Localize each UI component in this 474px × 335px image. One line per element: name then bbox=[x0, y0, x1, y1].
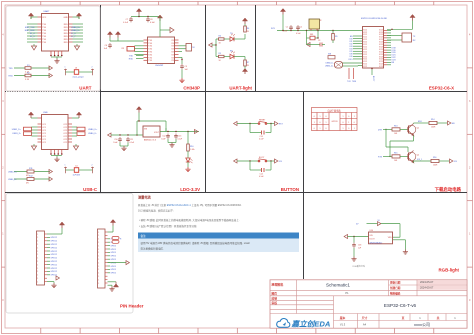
power flag VBUS J1 right bbox=[76, 112, 81, 118]
svg-text:ESP32-C6-WROOM-1U-N8: ESP32-C6-WROOM-1U-N8 bbox=[361, 18, 387, 20]
svg-text:1: 1 bbox=[98, 266, 99, 268]
svg-text:R14: R14 bbox=[431, 119, 434, 121]
ground J3 bottom bbox=[108, 284, 113, 286]
svg-text:1: 1 bbox=[354, 116, 355, 118]
svg-text:CC2: CC2 bbox=[63, 142, 67, 144]
svg-text:1-10k: 1-10k bbox=[190, 149, 195, 151]
svg-text:ESP32-C6-T-v6: ESP32-C6-T-v6 bbox=[384, 303, 417, 308]
svg-text:TXD: TXD bbox=[42, 30, 46, 32]
svg-text:USB0_D+: USB0_D+ bbox=[88, 129, 98, 131]
svg-text:BOOT: BOOT bbox=[372, 76, 374, 82]
wire Q1 collector up bbox=[413, 122, 415, 125]
wire RTS bbox=[383, 155, 392, 157]
svg-text:J6: J6 bbox=[75, 68, 77, 70]
resistor R13 bbox=[392, 128, 400, 131]
svg-text:U10: U10 bbox=[370, 230, 373, 232]
svg-text:1: 1 bbox=[37, 278, 38, 280]
svg-text:C7: C7 bbox=[126, 19, 128, 21]
svg-text:0: 0 bbox=[348, 128, 349, 130]
svg-text:备注: 备注 bbox=[141, 234, 147, 238]
arrow flag 3V3 out bbox=[195, 130, 198, 134]
svg-text:1: 1 bbox=[98, 273, 99, 275]
power flag left pair bbox=[107, 32, 112, 38]
JLCEDA logo cloud bbox=[277, 318, 290, 327]
svg-text:LDO-3.3V: LDO-3.3V bbox=[180, 187, 200, 192]
svg-text:V3: V3 bbox=[171, 49, 173, 51]
svg-text:• 安装 J5 跳帽 (出厂默认位置) : 开发板恢复正常: • 安装 J5 跳帽 (出厂默认位置) : 开发板恢复正常功能. bbox=[139, 224, 198, 228]
LED D2 RX bbox=[224, 56, 230, 58]
svg-text:2: 2 bbox=[92, 67, 93, 69]
PIN Header module box (light) bbox=[6, 194, 133, 314]
arrow flag D- bbox=[49, 177, 52, 181]
svg-text:TXD: TXD bbox=[148, 57, 152, 59]
svg-text:R4: R4 bbox=[219, 36, 221, 38]
svg-text:RGB-light: RGB-light bbox=[439, 268, 460, 273]
svg-text:IO12: IO12 bbox=[363, 66, 367, 68]
svg-text:R13: R13 bbox=[394, 126, 397, 128]
svg-text:USB-C: USB-C bbox=[83, 187, 98, 192]
resistor R14 bbox=[429, 121, 437, 124]
power flag J2 top bbox=[59, 222, 64, 228]
resistor R1 bbox=[25, 67, 31, 70]
svg-text:TXD: TXD bbox=[9, 68, 14, 70]
svg-text:1: 1 bbox=[98, 276, 99, 278]
power flag 3V3 (U1 top-left) bbox=[28, 13, 33, 19]
svg-text:VCC: VCC bbox=[42, 17, 47, 19]
svg-text:GPIO12: GPIO12 bbox=[51, 254, 58, 256]
svg-text:ESP_RXD: ESP_RXD bbox=[25, 30, 35, 32]
svg-text:GND: GND bbox=[63, 17, 68, 19]
wire loop below button bbox=[249, 124, 251, 133]
svg-text:0: 0 bbox=[326, 128, 327, 130]
svg-text:1: 1 bbox=[37, 258, 38, 260]
wire Q2 emitter right bbox=[413, 161, 415, 163]
svg-text:CH343P: CH343P bbox=[183, 86, 200, 91]
ground CH343P bbox=[179, 78, 184, 83]
net TXD wire row bbox=[14, 67, 50, 69]
svg-text:USB0_D-: USB0_D- bbox=[71, 30, 80, 32]
svg-text:2024-05-07: 2024-05-07 bbox=[420, 280, 434, 284]
section divider vertical x=205 bbox=[205, 5, 207, 193]
resistor R2 bbox=[25, 74, 31, 77]
svg-text:TXD: TXD bbox=[148, 49, 152, 51]
resistor R4 bbox=[219, 38, 225, 40]
resistor R10 vertical bbox=[187, 132, 189, 145]
wire to IO9 arrow bbox=[439, 160, 450, 162]
wire to ground bbox=[181, 69, 183, 78]
wires J1 right rows bbox=[72, 127, 77, 136]
svg-text:1: 1 bbox=[98, 249, 99, 251]
svg-text:UART-light: UART-light bbox=[229, 86, 252, 91]
resistor R11 bbox=[27, 170, 34, 173]
svg-text:100R: 100R bbox=[431, 127, 436, 129]
svg-text:2: 2 bbox=[92, 165, 93, 167]
svg-text:测量电流: 测量电流 bbox=[138, 195, 152, 200]
button S1 RESET circuit bbox=[234, 122, 237, 126]
pins J1 right bbox=[63, 118, 72, 144]
svg-text:WS2812B-Mini: WS2812B-Mini bbox=[370, 242, 383, 244]
ground U7 right bbox=[403, 250, 408, 255]
svg-text:1: 1 bbox=[37, 237, 38, 239]
svg-text:1: 1 bbox=[37, 251, 38, 253]
svg-text:CC2: CC2 bbox=[63, 139, 67, 141]
arrow flag ESP_RXD bbox=[49, 74, 52, 78]
svg-text:RXD: RXD bbox=[64, 24, 69, 26]
resistor R16 bbox=[431, 159, 439, 162]
svg-text:0: 0 bbox=[320, 122, 321, 124]
capacitor C2 bbox=[296, 25, 300, 30]
svg-text:R6: R6 bbox=[247, 28, 249, 30]
wire LED2 to R7 bbox=[234, 56, 245, 58]
capacitor C14 bbox=[262, 131, 265, 135]
svg-text:绘制: 绘制 bbox=[271, 296, 278, 300]
svg-text:GPIO5: GPIO5 bbox=[111, 256, 117, 258]
svg-text:1: 1 bbox=[326, 122, 327, 124]
svg-text:0: 0 bbox=[314, 116, 315, 118]
svg-text:R7: R7 bbox=[247, 62, 249, 64]
svg-text:1: 1 bbox=[314, 122, 315, 124]
svg-text:0: 0 bbox=[314, 128, 315, 130]
ground J1 bottom bbox=[51, 155, 62, 157]
wire to Q1 base bbox=[400, 128, 409, 130]
svg-text:IO9_1: IO9_1 bbox=[417, 159, 422, 161]
ground flag top-right bbox=[168, 29, 170, 31]
svg-text:1: 1 bbox=[98, 259, 99, 261]
svg-text:需注意模组针脚电压.: 需注意模组针脚电压. bbox=[141, 247, 165, 251]
svg-text:GPIO5: GPIO5 bbox=[111, 259, 117, 261]
power flag 3V3 ESP32 bbox=[280, 9, 285, 15]
svg-text:CC2: CC2 bbox=[63, 130, 67, 132]
svg-text:TXD: TXD bbox=[148, 60, 152, 62]
net labels U1 right bbox=[71, 27, 81, 38]
connector J3 right header bbox=[98, 229, 106, 288]
svg-text:1: 1 bbox=[65, 67, 66, 69]
svg-text:DTR: DTR bbox=[378, 129, 383, 131]
svg-text:USB0_D-: USB0_D- bbox=[8, 179, 17, 181]
svg-text:1: 1 bbox=[37, 247, 38, 249]
component R3 red box bbox=[127, 47, 135, 52]
resistor R5 bbox=[219, 55, 225, 57]
svg-text:CC1: CC1 bbox=[42, 139, 46, 141]
svg-text:TXD: TXD bbox=[148, 43, 152, 45]
UART module box (light) bbox=[6, 6, 100, 91]
svg-text:使用 5V 电源为 WR 供电并由电池针脚供电时, 请移除: 使用 5V 电源为 WR 供电并由电池针脚供电时, 请移除 J5 跳帽, 否则模… bbox=[141, 241, 250, 245]
svg-text:1: 1 bbox=[37, 271, 38, 273]
capacitor C15 bbox=[262, 168, 265, 172]
section divider vertical x=303 bbox=[303, 92, 305, 280]
svg-text:1: 1 bbox=[37, 261, 38, 263]
ground flag J1 right bbox=[75, 144, 77, 146]
section divider horizontal row1/row2 bbox=[101, 91, 468, 93]
component FB1 bbox=[310, 36, 315, 40]
svg-text:C2: C2 bbox=[300, 27, 302, 29]
svg-text:审核: 审核 bbox=[272, 301, 278, 305]
svg-text:TXD: TXD bbox=[42, 33, 46, 35]
svg-text:RTS: RTS bbox=[378, 156, 383, 158]
pins U1 right bbox=[63, 17, 72, 44]
power flag 5V small bbox=[157, 15, 162, 21]
button S2 symbol bbox=[258, 159, 267, 162]
svg-text:GPIO5: GPIO5 bbox=[111, 269, 117, 271]
svg-text:TXD: TXD bbox=[42, 39, 46, 41]
svg-text:0: 0 bbox=[343, 122, 344, 124]
svg-text:EN1: EN1 bbox=[418, 121, 422, 123]
svg-text:UART: UART bbox=[44, 10, 51, 13]
pins J2 bbox=[37, 234, 47, 284]
power flag U5 top right bbox=[410, 15, 415, 21]
capacitor C9 bbox=[180, 64, 184, 69]
IC U6 AMS1117-3.3 bbox=[143, 126, 160, 137]
svg-text:TXD: TXD bbox=[148, 54, 152, 56]
svg-text:1: 1 bbox=[37, 234, 38, 236]
svg-text:IO13: IO13 bbox=[379, 66, 383, 68]
svg-text:V3: V3 bbox=[171, 40, 173, 42]
svg-text:1: 1 bbox=[65, 165, 66, 167]
LED D1 TX bbox=[224, 38, 230, 40]
resistor R9 vertical bbox=[332, 31, 334, 34]
svg-text:C9: C9 bbox=[185, 66, 187, 68]
component U3 (yellow) bbox=[309, 19, 320, 29]
svg-text:xxxx公司: xxxx公司 bbox=[414, 322, 430, 327]
button S1 symbol bbox=[258, 121, 267, 124]
arrow flag ESP_TXD bbox=[49, 66, 52, 70]
svg-text:USB0_D+: USB0_D+ bbox=[8, 172, 18, 174]
power arrow flag RGB top bbox=[378, 222, 381, 226]
svg-text:下载启动电路: 下载启动电路 bbox=[435, 186, 462, 193]
svg-text:CC1: CC1 bbox=[42, 136, 46, 138]
resistor R15 bbox=[392, 155, 400, 158]
wire button right bbox=[267, 160, 275, 162]
svg-text:USB0_D-: USB0_D- bbox=[326, 63, 334, 65]
arrow flag IO9 bbox=[450, 159, 453, 163]
wires and net labels J3 bbox=[108, 239, 117, 275]
svg-text:CC2: CC2 bbox=[63, 124, 67, 126]
svg-text:RXD: RXD bbox=[64, 39, 69, 41]
pins U2 right bbox=[171, 40, 178, 62]
svg-text:GPIO12: GPIO12 bbox=[51, 251, 58, 253]
svg-text:TXD: TXD bbox=[42, 24, 46, 26]
svg-text:5.1K: 5.1K bbox=[25, 79, 30, 81]
wire U2 right down bbox=[179, 56, 183, 58]
pins J1 bottom bbox=[50, 150, 62, 155]
pin names U5 left column bbox=[363, 29, 367, 68]
svg-text:ESP32-C6-X: ESP32-C6-X bbox=[429, 86, 454, 91]
svg-text:共: 共 bbox=[437, 316, 440, 320]
svg-text:CH343P: CH343P bbox=[155, 65, 164, 67]
connector P3 bbox=[402, 33, 412, 42]
svg-text:R10: R10 bbox=[190, 146, 193, 148]
svg-text:开发板上有 J5 排针 (注意 ESP32-C6-DevKi: 开发板上有 J5 排针 (注意 ESP32-C6-DevKitC-1 上没有 J… bbox=[138, 203, 242, 207]
svg-text:TXD: TXD bbox=[42, 27, 46, 29]
svg-text:R5: R5 bbox=[219, 53, 221, 55]
svg-text:Q2: Q2 bbox=[417, 155, 420, 157]
svg-text:TXD: TXD bbox=[129, 56, 134, 58]
arrow flag D+ bbox=[49, 170, 52, 174]
capacitor C10 bbox=[118, 137, 122, 142]
IC U1 UART pin-header symbol bbox=[42, 14, 69, 52]
svg-text:TXD: TXD bbox=[148, 52, 152, 54]
section divider horizontal row2/row3 bbox=[5, 192, 467, 194]
svg-text:创建日期: 创建日期 bbox=[389, 286, 401, 290]
svg-text:1: 1 bbox=[37, 268, 38, 270]
svg-text:C8: C8 bbox=[150, 19, 152, 21]
pins U1 left bbox=[38, 17, 47, 44]
power flag J3 top bbox=[110, 220, 115, 226]
connector J2 left header bbox=[37, 231, 45, 285]
svg-text:CC2: CC2 bbox=[63, 133, 67, 135]
resistor R12 bbox=[27, 178, 34, 181]
svg-text:C18: C18 bbox=[358, 245, 361, 247]
wire left power bbox=[109, 38, 111, 42]
power flag UART-light top bbox=[242, 18, 247, 24]
svg-text:RESET: RESET bbox=[259, 119, 266, 121]
svg-text:P1: P1 bbox=[345, 291, 349, 295]
frame row letters bbox=[2, 34, 471, 303]
svg-text:页: 页 bbox=[401, 316, 405, 320]
svg-text:GPIO5: GPIO5 bbox=[111, 252, 117, 254]
svg-text:1: 1 bbox=[343, 128, 344, 130]
table cell texts bbox=[314, 116, 355, 130]
button S2 BOOT circuit bbox=[234, 159, 237, 163]
capacitor C3 bbox=[313, 44, 320, 46]
svg-text:IO15: IO15 bbox=[348, 59, 352, 61]
wire EN loop bbox=[136, 121, 138, 135]
capacitor C8 bbox=[146, 17, 150, 22]
svg-text:USB0_D+: USB0_D+ bbox=[71, 27, 81, 29]
svg-text:ESP_TXD: ESP_TXD bbox=[25, 27, 35, 29]
svg-text:GPIO12: GPIO12 bbox=[51, 264, 58, 266]
net USB0_D+ wire row bbox=[14, 171, 50, 173]
svg-text:1: 1 bbox=[348, 122, 349, 124]
svg-text:嘉立创EDA: 嘉立创EDA bbox=[291, 320, 331, 329]
svg-text:GPIO12: GPIO12 bbox=[51, 237, 58, 239]
svg-text:CC2: CC2 bbox=[63, 136, 67, 138]
jumper H2 with capacitor C4 bbox=[65, 167, 67, 173]
svg-text:C3: C3 bbox=[318, 40, 320, 42]
svg-text:C6: C6 bbox=[105, 45, 107, 47]
svg-text:CC1: CC1 bbox=[42, 142, 46, 144]
arrow flag RST bbox=[275, 122, 278, 126]
svg-text:更新日期: 更新日期 bbox=[389, 281, 401, 285]
svg-text:1: 1 bbox=[37, 241, 38, 243]
capacitor C13 bbox=[174, 134, 178, 139]
svg-text:V3: V3 bbox=[171, 60, 173, 62]
common mode choke U4 bbox=[335, 62, 343, 69]
pin names U5 right column bbox=[379, 29, 383, 68]
wire DTR bbox=[383, 128, 392, 130]
resistor R7 vertical bbox=[244, 60, 247, 66]
power flag UART-light bottom bbox=[244, 66, 246, 69]
capacitor C11 bbox=[126, 137, 130, 142]
resistors J1 right pair bbox=[77, 127, 85, 131]
svg-text:AMS1117-3.3: AMS1117-3.3 bbox=[144, 138, 157, 141]
ground LDO input caps bbox=[119, 142, 121, 146]
arrow flag IO9 bbox=[275, 159, 278, 163]
ground U1 bottom bbox=[51, 56, 62, 58]
resistors J1 left pair bbox=[24, 127, 32, 131]
pins J1 left bbox=[38, 118, 47, 144]
svg-text:0: 0 bbox=[354, 122, 355, 124]
IC U5 ESP32-C6-WROOM module bbox=[363, 27, 384, 69]
wires U5 right to connector bbox=[387, 35, 402, 37]
svg-text:C4: C4 bbox=[75, 166, 77, 168]
svg-text:1: 1 bbox=[98, 232, 99, 234]
svg-text:版本: 版本 bbox=[340, 316, 346, 320]
wire to EN arrow bbox=[437, 122, 448, 124]
arrow flag VBUS input bbox=[108, 133, 111, 137]
power flag 3V3 LDO top bbox=[136, 107, 141, 113]
svg-text:GPIO12: GPIO12 bbox=[51, 268, 58, 270]
svg-text:尺寸: 尺寸 bbox=[361, 316, 368, 320]
svg-text:1: 1 bbox=[98, 235, 99, 237]
ground flag U1 left bbox=[33, 44, 35, 46]
net labels U1 left bbox=[25, 27, 36, 38]
svg-text:TXD: TXD bbox=[42, 42, 46, 44]
arrow flag left EN bbox=[307, 43, 310, 47]
power flag 5V (U1 top-right) bbox=[76, 13, 81, 19]
svg-text:100R: 100R bbox=[433, 165, 438, 167]
svg-text:RXD: RXD bbox=[64, 30, 69, 32]
capacitor C12 bbox=[166, 134, 170, 139]
pins U1 bottom bbox=[50, 51, 62, 56]
capacitor C7 bbox=[129, 17, 133, 22]
svg-text:C12: C12 bbox=[162, 136, 165, 138]
wires down pair bbox=[348, 68, 350, 79]
svg-text:close-jumper: close-jumper bbox=[73, 77, 85, 79]
wires J1 left rows bbox=[32, 127, 38, 136]
IC U2 CH343P bbox=[148, 37, 175, 64]
wire VDD stem bbox=[159, 21, 161, 37]
cross coupling wires bbox=[385, 129, 387, 147]
wire top rail bbox=[131, 16, 160, 18]
svg-text:1: 1 bbox=[98, 242, 99, 244]
wire split bbox=[215, 39, 217, 57]
doc note box body bbox=[138, 239, 299, 253]
ground LDO output caps bbox=[167, 139, 169, 143]
svg-text:1: 1 bbox=[37, 264, 38, 266]
svg-text:1: 1 bbox=[98, 279, 99, 281]
wires U2 left rows bbox=[135, 46, 144, 55]
wire J3 long right bbox=[108, 262, 127, 264]
svg-text:GPIO12: GPIO12 bbox=[51, 261, 58, 263]
svg-text:R9: R9 bbox=[335, 36, 337, 38]
table: auto download truth table bbox=[312, 108, 358, 131]
arrow flag RGB input bbox=[344, 235, 347, 239]
svg-text:CC2: CC2 bbox=[63, 127, 67, 129]
net RXD wire row bbox=[14, 75, 50, 77]
svg-text:Q1: Q1 bbox=[417, 128, 420, 130]
svg-text:USB1_D-: USB1_D- bbox=[12, 133, 21, 135]
LED D3 power bbox=[187, 151, 189, 158]
section divider vertical x=255 bbox=[255, 5, 257, 92]
ground J2 bottom bbox=[47, 281, 54, 283]
svg-text:1: 1 bbox=[354, 128, 355, 130]
capacitor C6 bbox=[108, 43, 112, 48]
IC J1 USB-C receptacle bbox=[42, 115, 69, 150]
svg-text:UART: UART bbox=[79, 86, 92, 91]
wire button right bbox=[267, 123, 275, 125]
wire main rail bbox=[277, 30, 363, 32]
wire loop below button bbox=[249, 161, 251, 170]
svg-text:1U2 模组的电流. 使用方法如下:: 1U2 模组的电流. 使用方法如下: bbox=[138, 209, 174, 213]
svg-text:USB1_D+: USB1_D+ bbox=[12, 129, 22, 131]
svg-text:RXD: RXD bbox=[129, 58, 134, 60]
svg-text:C11: C11 bbox=[130, 139, 133, 141]
svg-text:TXD: TXD bbox=[148, 46, 152, 48]
svg-text:C13: C13 bbox=[178, 136, 181, 138]
IC U7 WS2812 RGB led bbox=[369, 232, 393, 244]
transistor Q2 bbox=[407, 151, 416, 163]
